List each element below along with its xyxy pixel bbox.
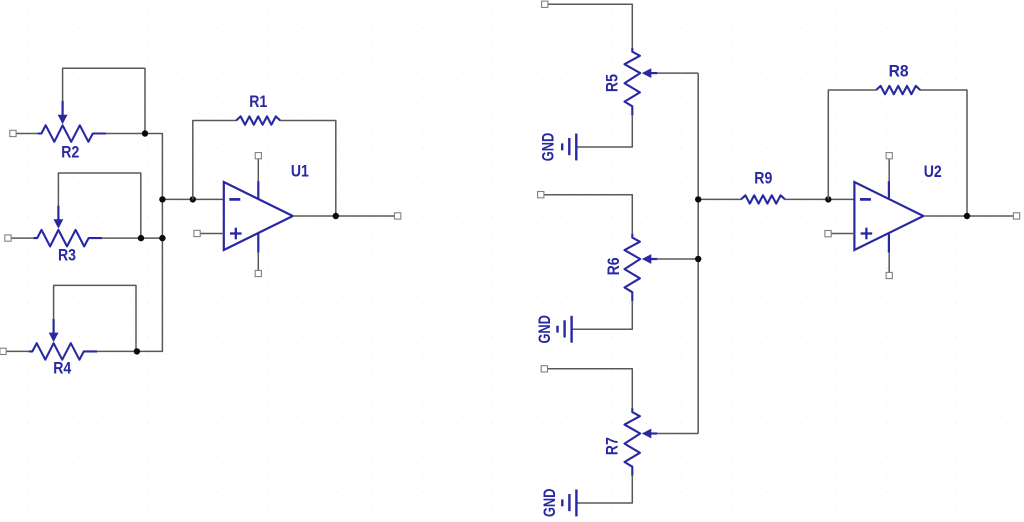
wire U2 non-inverting input xyxy=(831,233,854,235)
potentiometer R6 xyxy=(625,234,658,302)
wire U2 negative supply pin xyxy=(888,253,890,274)
svg-text:U1: U1 xyxy=(291,163,309,181)
label GND (R5) xyxy=(540,133,558,162)
wire R7 top terminal xyxy=(548,369,633,408)
wire wiper bus vertical xyxy=(697,73,699,433)
wire R8 right leg xyxy=(920,90,967,216)
wire U1 output xyxy=(293,215,395,217)
port P1 (R2 left terminal) xyxy=(10,130,16,136)
label GND (R7) xyxy=(541,488,559,517)
wire R2 wiper loop xyxy=(63,68,145,133)
potentiometer R3 xyxy=(34,206,103,247)
port P8 (R5 top terminal) xyxy=(542,1,548,7)
resistor R9 xyxy=(741,195,785,203)
wire R5 wiper to bus xyxy=(657,72,698,74)
wire U2 output xyxy=(923,215,1013,217)
wire R6 wiper to bus xyxy=(657,258,698,260)
label U2 xyxy=(924,163,942,181)
node R6 wiper bus junction xyxy=(695,256,701,262)
wire R6 bottom to ground xyxy=(573,301,633,329)
port P4 (U1 non-inverting input) xyxy=(194,230,200,236)
op-amp U1 xyxy=(224,181,293,253)
potentiometer R2 xyxy=(38,101,107,142)
port P2 (R3 left terminal) xyxy=(5,235,11,241)
wire R2 left port lead xyxy=(16,133,38,135)
port P6 (U1 V-) xyxy=(255,270,261,276)
resistor R1 xyxy=(236,116,280,124)
label R6 xyxy=(605,257,623,275)
svg-text:R5: R5 xyxy=(603,74,621,92)
port P14 (U2 output) xyxy=(1013,213,1019,219)
port P13 (U2 V-) xyxy=(886,272,892,278)
label R5 xyxy=(603,74,621,92)
label R1 xyxy=(249,93,267,111)
wire R9 left leg xyxy=(698,198,741,200)
port P7 (U1 output) xyxy=(395,213,401,219)
potentiometer R4 xyxy=(29,319,98,360)
node U2 output junction xyxy=(964,213,970,219)
svg-text:GND: GND xyxy=(540,133,558,162)
wire R9 right leg xyxy=(785,198,855,200)
wire R8 left leg xyxy=(828,90,876,199)
wire R7 bottom to ground xyxy=(577,476,632,503)
port P11 (U2 non-inverting input) xyxy=(825,231,831,237)
node bus R9 junction xyxy=(695,196,701,202)
wire U1 non-inverting input xyxy=(200,233,223,235)
wire summing node to U1 inverting input xyxy=(162,198,223,200)
port P12 (U2 V+) xyxy=(886,153,892,159)
svg-text:R2: R2 xyxy=(61,144,79,162)
wire U1 negative supply pin xyxy=(257,253,259,273)
label R8 xyxy=(889,63,909,81)
node R8 feedback tap xyxy=(825,196,831,202)
wire R4 output xyxy=(97,350,137,352)
label U1 xyxy=(291,163,309,181)
wire R4 left port lead xyxy=(6,350,29,352)
label R7 xyxy=(604,437,622,455)
node R2 junction xyxy=(142,130,148,136)
potentiometer R7 xyxy=(625,408,658,476)
wire R7 wiper to bus xyxy=(657,433,698,435)
svg-text:R1: R1 xyxy=(249,93,267,111)
port P10 (R7 top terminal) xyxy=(541,366,547,372)
node R3 junction xyxy=(138,235,144,241)
wire R5 top terminal xyxy=(548,4,632,48)
wire R6 top terminal xyxy=(544,195,632,234)
node R1 feedback tap xyxy=(190,196,196,202)
label R9 xyxy=(754,170,772,188)
wire U1 positive supply pin xyxy=(257,157,259,182)
op-amp U2 xyxy=(854,181,923,253)
wire R3 wiper loop xyxy=(58,173,140,238)
port P5 (U1 V+) xyxy=(255,153,261,159)
node R4 junction xyxy=(134,348,140,354)
wire R2 output to bus xyxy=(106,134,162,352)
ground GND (R5) xyxy=(562,134,576,161)
wire R1 left leg xyxy=(193,121,237,200)
svg-text:GND: GND xyxy=(541,488,559,517)
node R3 bus junction xyxy=(159,235,165,241)
wire R3 left port lead xyxy=(11,237,34,239)
wire U2 positive supply pin xyxy=(888,157,890,182)
wire R3 output to bus xyxy=(102,237,163,239)
node bus inverting junction xyxy=(159,196,165,202)
svg-text:U2: U2 xyxy=(924,163,942,181)
port P3 (R4 left terminal) xyxy=(0,348,6,354)
label R3 xyxy=(58,246,76,264)
wire R4 wiper loop xyxy=(54,285,136,351)
wire R5 bottom to ground xyxy=(577,115,632,147)
wire R1 right leg xyxy=(280,121,336,217)
label R2 xyxy=(61,144,79,162)
ground GND (R6) xyxy=(558,316,572,343)
port P9 (R6 top terminal) xyxy=(538,192,544,198)
label R4 xyxy=(53,360,72,378)
potentiometer R5 xyxy=(625,48,658,116)
svg-text:GND: GND xyxy=(536,315,554,344)
svg-text:R6: R6 xyxy=(605,257,623,275)
svg-text:R8: R8 xyxy=(889,63,909,81)
resistor R8 xyxy=(876,86,920,94)
svg-text:R4: R4 xyxy=(53,360,72,378)
ground GND (R7) xyxy=(562,490,576,517)
node U1 output junction xyxy=(333,213,339,219)
svg-text:R9: R9 xyxy=(754,170,772,188)
svg-text:R7: R7 xyxy=(604,437,622,455)
svg-text:R3: R3 xyxy=(58,246,76,264)
label GND (R6) xyxy=(536,315,554,344)
